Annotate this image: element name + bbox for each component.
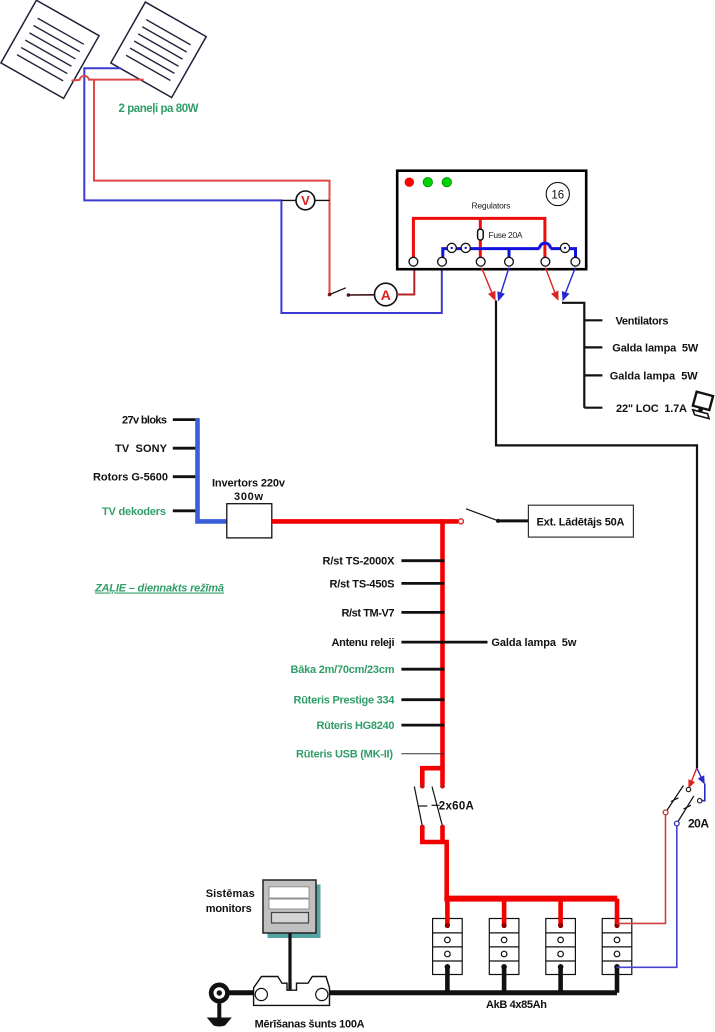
svg-text:2x60A: 2x60A xyxy=(439,801,474,813)
wire ammeter to regulator xyxy=(397,267,414,295)
stub TV SONY xyxy=(173,447,199,450)
wire black bracket loads xyxy=(562,303,584,408)
svg-text:Rūteris Prestige 334: Rūteris Prestige 334 xyxy=(294,695,396,707)
stub Ventilators xyxy=(584,319,602,321)
svg-text:A: A xyxy=(381,287,391,303)
battery red bus xyxy=(444,896,617,902)
fuse F1 xyxy=(478,229,484,240)
stub TS-2000X xyxy=(401,559,444,562)
switch S1 xyxy=(328,293,332,297)
shunt hole left xyxy=(255,988,267,1000)
svg-text:Rūteris USB (MK-II): Rūteris USB (MK-II) xyxy=(296,749,393,761)
stub Rotors xyxy=(173,475,199,478)
breaker link dashes xyxy=(418,805,427,807)
terminal 1 xyxy=(409,257,418,266)
wire voltmeter tap xyxy=(281,199,329,201)
svg-text:Antenu releji: Antenu releji xyxy=(332,637,395,649)
svg-text:Galda lampa 5W: Galda lampa 5W xyxy=(610,371,699,383)
monitor wire xyxy=(288,934,291,990)
shunt body xyxy=(254,977,330,1006)
svg-text:V: V xyxy=(301,193,310,208)
node ext charger tap xyxy=(458,519,463,524)
stub TS-450S xyxy=(401,582,444,585)
svg-text:22" LOC 1.7A: 22" LOC 1.7A xyxy=(616,403,687,415)
battery negative dots xyxy=(445,964,451,970)
svg-text:R/st TS-450S: R/st TS-450S xyxy=(330,578,395,590)
ammeter A xyxy=(375,283,398,306)
stub USB MK-II thin xyxy=(401,753,444,755)
wire to ammeter xyxy=(348,294,374,296)
wire to ext charger xyxy=(498,519,528,522)
wire blue hop over red xyxy=(540,243,551,249)
20A contact upper red xyxy=(686,787,690,791)
wire red bus regulator xyxy=(413,218,545,257)
svg-text:Rotors G-5600: Rotors G-5600 xyxy=(93,472,168,484)
terminal 2 xyxy=(438,257,447,266)
svg-text:monitors: monitors xyxy=(206,903,252,915)
thin blue charger wire xyxy=(617,825,677,967)
20A lower contact blue xyxy=(674,821,679,826)
monitor box shadow xyxy=(268,885,321,939)
wire blue panel link xyxy=(84,68,442,313)
stub 22 LOC xyxy=(584,407,602,409)
stub HG8240 xyxy=(401,724,444,727)
wire blue inverter feed xyxy=(198,418,228,521)
stub TM-V7 xyxy=(401,611,444,614)
voltmeter V xyxy=(296,191,315,210)
stub Prestige xyxy=(401,698,444,701)
svg-text:300w: 300w xyxy=(234,491,263,503)
terminal 6 xyxy=(571,257,580,266)
20A lower contact red xyxy=(663,810,668,815)
circle 16 xyxy=(546,182,569,205)
svg-text:20A: 20A xyxy=(688,817,709,831)
svg-text:Fuse 20A: Fuse 20A xyxy=(489,230,523,240)
svg-text:Galda lampa 5w: Galda lampa 5w xyxy=(491,637,576,649)
solar panel PV2 xyxy=(111,2,206,97)
battery B3 xyxy=(546,919,576,975)
hop circle 2 xyxy=(461,243,470,252)
ground stub xyxy=(217,1004,221,1018)
20A blades xyxy=(667,786,684,812)
20A link ticks xyxy=(671,798,679,802)
hop circle 3 xyxy=(560,243,569,252)
terminal 4 xyxy=(505,257,514,266)
breaker top contacts xyxy=(420,784,425,789)
wire red main feed xyxy=(272,519,458,524)
svg-text:Rūteris HG8240: Rūteris HG8240 xyxy=(317,720,395,732)
monitor button xyxy=(272,913,309,924)
LED green 1 xyxy=(423,178,432,187)
breaker lower contacts xyxy=(420,825,425,830)
terminal 5 xyxy=(541,257,550,266)
regulator box xyxy=(397,171,586,270)
monitor bar 2 xyxy=(269,899,309,909)
arrow red load1 xyxy=(482,268,492,293)
battery B2 xyxy=(489,919,519,975)
wire red panel down xyxy=(94,80,330,294)
switch ext charger xyxy=(466,509,498,521)
black ground bus xyxy=(221,990,617,995)
LED green 2 xyxy=(442,178,451,187)
battery B4 xyxy=(602,919,632,975)
blue hook xyxy=(702,784,705,801)
solar panel PV1 xyxy=(1,0,99,98)
20A switch red arrow xyxy=(692,768,697,781)
LED red xyxy=(405,178,414,187)
monitor icon xyxy=(691,392,715,419)
svg-text:Bāka 2m/70cm/23cm: Bāka 2m/70cm/23cm xyxy=(291,664,395,676)
svg-text:16: 16 xyxy=(551,189,564,201)
svg-text:Ext. Lādētājs 50A: Ext. Lādētājs 50A xyxy=(537,517,625,529)
svg-text:Galda lampa 5W: Galda lampa 5W xyxy=(612,343,699,355)
wire black main distribution xyxy=(496,301,697,769)
breaker 2x60A top U xyxy=(422,768,442,785)
stub Galda lampa 1 xyxy=(584,346,602,348)
stub 27v bloks xyxy=(173,418,199,421)
arrow blue load1 xyxy=(501,268,509,293)
stub Baka xyxy=(401,668,444,671)
thin red charger wire xyxy=(617,814,666,924)
svg-text:Sistēmas: Sistēmas xyxy=(206,888,255,900)
battery negative stubs xyxy=(447,967,617,993)
battery B1 xyxy=(433,919,463,975)
svg-text:ZAĻIE – diennakts režīmā: ZAĻIE – diennakts režīmā xyxy=(94,583,224,595)
monitor wire end in notch xyxy=(288,983,291,990)
arrow blue load2 xyxy=(566,268,576,293)
inverter box xyxy=(227,504,272,538)
svg-text:AkB 4x85Ah: AkB 4x85Ah xyxy=(486,999,547,1011)
ground symbol xyxy=(209,983,230,1004)
monitor box xyxy=(263,880,316,933)
battery terminal dots xyxy=(445,923,450,928)
20A switch blue arrow xyxy=(697,768,701,777)
arrow red load2 xyxy=(545,268,554,293)
stub TV dekoders xyxy=(173,509,199,512)
svg-text:27v bloks: 27v bloks xyxy=(122,415,167,427)
box Ext Ladetajs xyxy=(528,505,633,537)
wire red to terminal 5 xyxy=(543,249,546,258)
svg-text:Ventilators: Ventilators xyxy=(616,316,669,328)
svg-text:2 paneļi pa 80W: 2 paneļi pa 80W xyxy=(119,103,199,115)
battery red stubs xyxy=(447,899,617,926)
breaker blades xyxy=(414,787,422,828)
svg-text:Regulators: Regulators xyxy=(472,201,511,211)
stub Galda lampa 2 xyxy=(584,374,602,376)
20A contact upper blue xyxy=(698,799,702,803)
hop circle 1 xyxy=(447,243,456,252)
svg-text:R/st TS-2000X: R/st TS-2000X xyxy=(323,556,396,568)
svg-text:R/st TM-V7: R/st TM-V7 xyxy=(342,607,395,619)
shunt hole right xyxy=(316,988,328,1000)
stub Antenu releji + Galda lampa xyxy=(401,641,487,644)
breaker bottom U xyxy=(420,827,449,900)
terminal 3 xyxy=(476,257,485,266)
ground foot xyxy=(207,1018,232,1027)
wire blue bus regulator xyxy=(443,249,576,258)
monitor bar 1 xyxy=(269,887,309,898)
svg-text:Mērīšanas šunts 100A: Mērīšanas šunts 100A xyxy=(255,1019,365,1031)
svg-text:Invertors 220v: Invertors 220v xyxy=(212,478,286,490)
svg-text:TV SONY: TV SONY xyxy=(115,443,168,455)
wire red panel with hop xyxy=(72,76,144,81)
svg-text:TV dekoders: TV dekoders xyxy=(102,506,166,518)
wire red main vertical xyxy=(440,519,445,785)
